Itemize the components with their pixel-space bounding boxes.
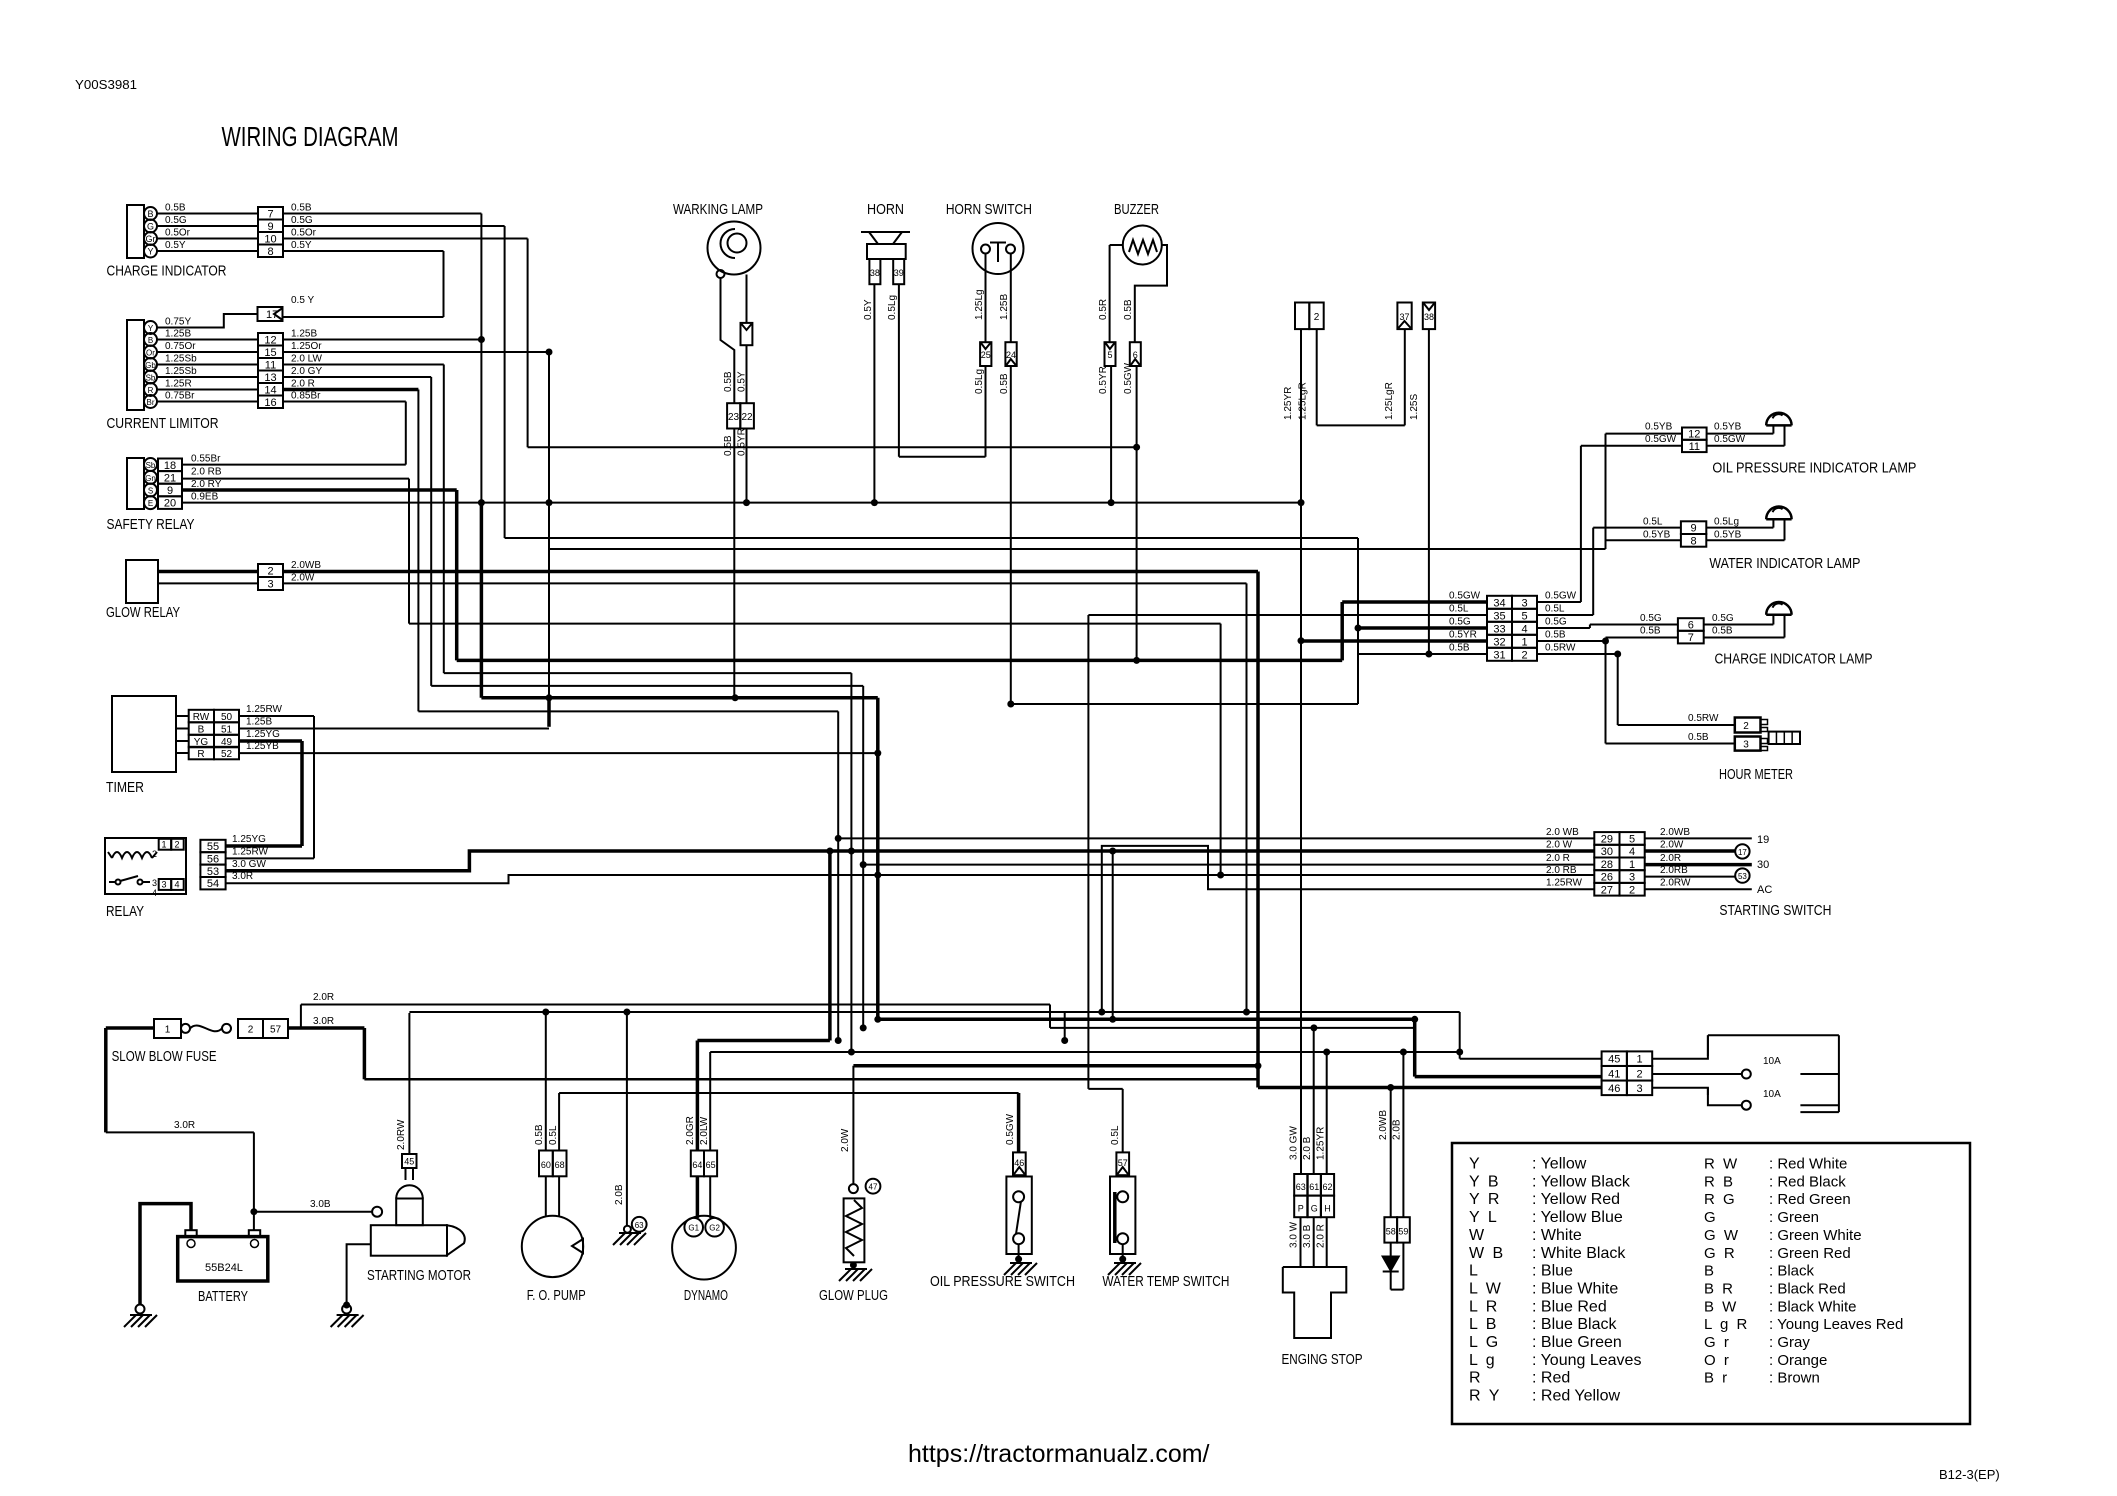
svg-text:SLOW BLOW FUSE: SLOW BLOW FUSE xyxy=(112,1048,217,1065)
svg-text:3: 3 xyxy=(1521,597,1527,609)
svg-text:65: 65 xyxy=(706,1160,716,1170)
svg-text:3.0B: 3.0B xyxy=(310,1199,331,1210)
svg-text:2.0R: 2.0R xyxy=(1660,853,1681,864)
svg-text:1.25RW: 1.25RW xyxy=(232,846,269,857)
svg-text:1: 1 xyxy=(1629,859,1635,871)
svg-text:38: 38 xyxy=(1424,312,1434,322)
svg-text:R B: R B xyxy=(1704,1173,1735,1190)
svg-text:: Black: : Black xyxy=(1769,1263,1815,1280)
svg-text:17: 17 xyxy=(1738,848,1747,857)
svg-text:HOUR METER: HOUR METER xyxy=(1719,766,1793,783)
svg-text:34: 34 xyxy=(1493,597,1505,609)
svg-text:: Red Yellow: : Red Yellow xyxy=(1532,1388,1621,1405)
svg-text:Y: Y xyxy=(1469,1156,1482,1173)
svg-text:2.0 B: 2.0 B xyxy=(1302,1136,1313,1160)
svg-text:3: 3 xyxy=(267,579,273,591)
svg-text:2.0 R: 2.0 R xyxy=(1316,1224,1327,1248)
svg-text:2.0 W: 2.0 W xyxy=(1546,840,1573,851)
svg-text:0.5G: 0.5G xyxy=(1712,613,1734,624)
svg-text:WIRING DIAGRAM: WIRING DIAGRAM xyxy=(222,121,399,152)
svg-text:L g: L g xyxy=(1469,1352,1497,1369)
svg-text:: Young Leaves Red: : Young Leaves Red xyxy=(1769,1316,1903,1333)
svg-text:R Y: R Y xyxy=(1469,1388,1501,1405)
svg-text:3.0R: 3.0R xyxy=(232,871,253,882)
svg-text:63: 63 xyxy=(635,1221,644,1230)
svg-text:0.5Y: 0.5Y xyxy=(737,371,748,392)
svg-text:L: L xyxy=(1469,1263,1480,1280)
svg-text:7: 7 xyxy=(1688,632,1694,644)
svg-text:68: 68 xyxy=(555,1160,565,1170)
svg-text:: White Black: : White Black xyxy=(1532,1245,1626,1262)
svg-text:: Brown: : Brown xyxy=(1769,1370,1820,1387)
svg-text:G W: G W xyxy=(1704,1227,1740,1244)
svg-text:0.5GW: 0.5GW xyxy=(1123,362,1134,394)
svg-text:AC: AC xyxy=(1757,884,1772,896)
svg-text:0.5Lg: 0.5Lg xyxy=(974,369,985,394)
svg-text:31: 31 xyxy=(1493,649,1505,661)
svg-text:2.0 RB: 2.0 RB xyxy=(1546,865,1577,876)
svg-text:27: 27 xyxy=(1601,884,1613,896)
svg-text:Or: Or xyxy=(146,349,155,358)
svg-text:12: 12 xyxy=(264,334,276,346)
svg-text:0.75Y: 0.75Y xyxy=(165,317,191,328)
svg-text:0.5Or: 0.5Or xyxy=(165,228,191,239)
svg-text:10A: 10A xyxy=(1763,1089,1781,1100)
svg-text:G R: G R xyxy=(1704,1245,1737,1262)
svg-text:0.5B: 0.5B xyxy=(165,203,186,214)
svg-text:0.5B: 0.5B xyxy=(723,371,734,392)
svg-text:0.5B: 0.5B xyxy=(723,435,734,456)
svg-text:R W: R W xyxy=(1704,1156,1739,1173)
svg-text:2: 2 xyxy=(1743,721,1749,732)
svg-text:2: 2 xyxy=(267,566,273,578)
svg-text:53: 53 xyxy=(207,866,219,878)
svg-text:3: 3 xyxy=(1636,1083,1642,1095)
svg-text:5: 5 xyxy=(1107,350,1112,360)
svg-text:0.5YB: 0.5YB xyxy=(1714,529,1742,540)
svg-text:: Red Green: : Red Green xyxy=(1769,1191,1851,1208)
svg-text:0.5B: 0.5B xyxy=(1545,630,1566,641)
svg-text:1: 1 xyxy=(1521,636,1527,648)
svg-text:: Young Leaves: : Young Leaves xyxy=(1532,1352,1641,1369)
svg-text:BUZZER: BUZZER xyxy=(1114,201,1159,218)
svg-text:E: E xyxy=(148,499,153,508)
svg-text:STARTING MOTOR: STARTING MOTOR xyxy=(367,1267,471,1284)
svg-text:W B: W B xyxy=(1469,1245,1505,1262)
svg-text:2.0R: 2.0R xyxy=(313,992,334,1003)
svg-text:1.25LgR: 1.25LgR xyxy=(1384,382,1395,420)
svg-text:: Blue Red: : Blue Red xyxy=(1532,1298,1607,1315)
svg-text:5: 5 xyxy=(1521,610,1527,622)
svg-text:3.0 W: 3.0 W xyxy=(1289,1221,1300,1248)
svg-text:OIL PRESSURE SWITCH: OIL PRESSURE SWITCH xyxy=(930,1273,1075,1290)
svg-text:1.25B: 1.25B xyxy=(165,329,191,340)
svg-text:HORN SWITCH: HORN SWITCH xyxy=(946,201,1032,218)
svg-text:1: 1 xyxy=(1636,1054,1642,1066)
svg-text:B R: B R xyxy=(1704,1280,1735,1297)
svg-text:0.5Lg: 0.5Lg xyxy=(887,295,898,320)
svg-text:0.5B: 0.5B xyxy=(534,1124,545,1145)
svg-text:CURRENT LIMITOR: CURRENT LIMITOR xyxy=(107,415,219,432)
svg-text:B W: B W xyxy=(1704,1298,1738,1315)
svg-text:CHARGE INDICATOR: CHARGE INDICATOR xyxy=(107,263,227,280)
svg-text:0.5YB: 0.5YB xyxy=(1645,422,1673,433)
svg-text:1.25YR: 1.25YR xyxy=(1283,387,1294,420)
svg-text:2.0B: 2.0B xyxy=(614,1184,625,1205)
svg-text:0.85Br: 0.85Br xyxy=(291,391,321,402)
svg-text:3.0 GW: 3.0 GW xyxy=(232,859,266,870)
svg-text:R: R xyxy=(148,386,154,395)
svg-text:1.25B: 1.25B xyxy=(291,329,317,340)
svg-text:TIMER: TIMER xyxy=(106,779,144,796)
svg-text:WARKING LAMP: WARKING LAMP xyxy=(673,201,763,218)
svg-text:1.25R: 1.25R xyxy=(165,379,192,390)
svg-text:4: 4 xyxy=(1521,623,1527,635)
svg-text:0.5GW: 0.5GW xyxy=(1449,591,1481,602)
svg-text:0.75Or: 0.75Or xyxy=(165,341,196,352)
svg-text:Y L: Y L xyxy=(1469,1209,1499,1226)
svg-text:SAFETY RELAY: SAFETY RELAY xyxy=(107,516,195,533)
svg-text:WATER INDICATOR LAMP: WATER INDICATOR LAMP xyxy=(1709,555,1860,572)
svg-text:G: G xyxy=(1311,1204,1318,1214)
svg-text:1: 1 xyxy=(165,1025,171,1036)
svg-text:: Red White: : Red White xyxy=(1769,1156,1847,1173)
svg-text:4: 4 xyxy=(174,880,179,890)
svg-text:1.25LgR: 1.25LgR xyxy=(1298,382,1309,420)
svg-text:0.5YB: 0.5YB xyxy=(1643,529,1671,540)
svg-text:8: 8 xyxy=(1691,535,1697,547)
svg-text:0.5GW: 0.5GW xyxy=(1005,1113,1016,1145)
svg-text:3.0R: 3.0R xyxy=(174,1120,195,1131)
svg-text:: Red: : Red xyxy=(1532,1370,1570,1387)
svg-text:B12-3(EP): B12-3(EP) xyxy=(1939,1467,2000,1482)
svg-text:1.25YG: 1.25YG xyxy=(232,834,266,845)
svg-text:30: 30 xyxy=(1757,859,1769,871)
svg-text:Y: Y xyxy=(148,324,154,333)
svg-text:0.5G: 0.5G xyxy=(1545,617,1567,628)
svg-text:: Green: : Green xyxy=(1769,1209,1819,1226)
svg-text:0.5B: 0.5B xyxy=(1640,626,1661,637)
svg-text:0.5L: 0.5L xyxy=(1643,517,1663,528)
svg-text:62: 62 xyxy=(1322,1182,1332,1192)
svg-text:2: 2 xyxy=(152,849,157,859)
svg-text:0.5GW: 0.5GW xyxy=(1545,591,1577,602)
svg-text:0.5B: 0.5B xyxy=(291,203,312,214)
svg-text:41: 41 xyxy=(1608,1068,1620,1080)
svg-text:Sb: Sb xyxy=(146,461,156,470)
svg-text:28: 28 xyxy=(1601,859,1613,871)
svg-text:2.0RB: 2.0RB xyxy=(1660,865,1688,876)
svg-text:Gn: Gn xyxy=(145,474,156,483)
svg-text:: Yellow Black: : Yellow Black xyxy=(1532,1173,1631,1190)
svg-text:H: H xyxy=(1324,1204,1331,1214)
svg-text:10A: 10A xyxy=(1763,1056,1781,1067)
svg-text:G1: G1 xyxy=(688,1224,699,1233)
svg-text:2.0 GY: 2.0 GY xyxy=(291,366,322,377)
svg-text:Y00S3981: Y00S3981 xyxy=(75,77,137,92)
svg-text:3: 3 xyxy=(1743,740,1749,751)
svg-text:0.9EB: 0.9EB xyxy=(191,492,219,503)
svg-text:2.0W: 2.0W xyxy=(1660,840,1684,851)
svg-text:2.0 RB: 2.0 RB xyxy=(191,466,222,477)
svg-text:30: 30 xyxy=(1601,846,1613,858)
svg-text:: Blue: : Blue xyxy=(1532,1263,1573,1280)
svg-text:14: 14 xyxy=(264,384,276,396)
svg-text:: Gray: : Gray xyxy=(1769,1334,1810,1351)
svg-text:0.75Br: 0.75Br xyxy=(165,391,195,402)
svg-text:58: 58 xyxy=(1386,1227,1396,1237)
svg-text:2: 2 xyxy=(1314,312,1320,323)
svg-text:3.0 B: 3.0 B xyxy=(1302,1224,1313,1248)
svg-text:13: 13 xyxy=(264,372,276,384)
svg-text:S: S xyxy=(148,487,153,496)
svg-text:L g R: L g R xyxy=(1704,1316,1749,1333)
svg-text:0.5B: 0.5B xyxy=(1712,626,1733,637)
svg-text:0.5YB: 0.5YB xyxy=(1714,422,1742,433)
svg-text:55: 55 xyxy=(207,841,219,853)
svg-text:0.5Y: 0.5Y xyxy=(863,299,874,320)
svg-text:1.25YR: 1.25YR xyxy=(1316,1127,1327,1160)
svg-text:6: 6 xyxy=(1688,620,1694,632)
svg-text:3: 3 xyxy=(161,880,166,890)
svg-text:0.5G: 0.5G xyxy=(1640,613,1662,624)
svg-text:0.5B: 0.5B xyxy=(999,373,1010,394)
svg-text:38: 38 xyxy=(870,268,880,278)
svg-text:0.5L: 0.5L xyxy=(1449,604,1469,615)
svg-text:0.5Lg: 0.5Lg xyxy=(1714,517,1739,528)
svg-text:L B: L B xyxy=(1469,1316,1498,1333)
svg-text:: Blue Green: : Blue Green xyxy=(1532,1334,1622,1351)
svg-text:3: 3 xyxy=(152,878,157,888)
svg-text:1.25YG: 1.25YG xyxy=(246,729,280,740)
svg-text:CHARGE INDICATOR LAMP: CHARGE INDICATOR LAMP xyxy=(1715,650,1873,667)
svg-text:2.0WB: 2.0WB xyxy=(291,560,321,571)
svg-text:2.0 LW: 2.0 LW xyxy=(291,354,322,365)
svg-text:B r: B r xyxy=(1704,1370,1729,1387)
svg-text:53: 53 xyxy=(1738,872,1747,881)
svg-text:11: 11 xyxy=(1689,441,1700,453)
svg-text:2: 2 xyxy=(1629,884,1635,896)
svg-text:1.25B: 1.25B xyxy=(246,717,272,728)
svg-text:25: 25 xyxy=(981,350,991,360)
svg-text:9: 9 xyxy=(267,221,273,233)
svg-text:L R: L R xyxy=(1469,1298,1499,1315)
svg-text:26: 26 xyxy=(1601,872,1613,884)
svg-text:0.5G: 0.5G xyxy=(291,215,313,226)
svg-text:55B24L: 55B24L xyxy=(205,1262,243,1274)
svg-text:Y: Y xyxy=(147,247,153,257)
svg-text:47: 47 xyxy=(869,1183,878,1192)
svg-text:8: 8 xyxy=(267,246,273,258)
svg-text:0.5Or: 0.5Or xyxy=(291,228,317,239)
svg-text:0.5YR: 0.5YR xyxy=(1449,630,1477,641)
svg-text:2.0 WB: 2.0 WB xyxy=(1546,827,1579,838)
svg-text:: Orange: : Orange xyxy=(1769,1352,1827,1369)
svg-text:20: 20 xyxy=(164,498,176,510)
svg-text:STARTING SWITCH: STARTING SWITCH xyxy=(1719,902,1831,919)
svg-text:R: R xyxy=(197,749,204,760)
svg-text:P: P xyxy=(1298,1204,1304,1214)
svg-text:Y B: Y B xyxy=(1469,1173,1501,1190)
svg-text:16: 16 xyxy=(264,397,276,409)
svg-text:3.0R: 3.0R xyxy=(313,1016,334,1027)
svg-text:HORN: HORN xyxy=(867,201,904,218)
svg-text:2: 2 xyxy=(1636,1068,1642,1080)
svg-text:0.5L: 0.5L xyxy=(1110,1125,1121,1145)
svg-text:0.5B: 0.5B xyxy=(1449,643,1470,654)
svg-text:R: R xyxy=(1469,1370,1483,1387)
svg-text:1.25Or: 1.25Or xyxy=(291,341,322,352)
svg-text:: Green White: : Green White xyxy=(1769,1227,1862,1244)
svg-text:: Green Red: : Green Red xyxy=(1769,1245,1851,1262)
svg-text:: Red Black: : Red Black xyxy=(1769,1173,1846,1190)
svg-text:3.0 GW: 3.0 GW xyxy=(1289,1126,1300,1160)
svg-text:RELAY: RELAY xyxy=(106,903,144,920)
svg-text:: Blue White: : Blue White xyxy=(1532,1280,1618,1297)
svg-text:61: 61 xyxy=(1309,1182,1319,1192)
svg-text:0.5B: 0.5B xyxy=(1688,732,1709,743)
svg-text:L G: L G xyxy=(1469,1334,1500,1351)
svg-text:39: 39 xyxy=(894,268,904,278)
svg-text:2.0RW: 2.0RW xyxy=(396,1119,407,1150)
svg-text:4: 4 xyxy=(1629,846,1635,858)
svg-text:32: 32 xyxy=(1493,636,1505,648)
svg-text:2: 2 xyxy=(174,840,179,850)
svg-text:R G: R G xyxy=(1704,1191,1737,1208)
svg-text:Sb: Sb xyxy=(146,374,156,383)
svg-text:46: 46 xyxy=(1608,1083,1620,1095)
svg-text:Y R: Y R xyxy=(1469,1191,1501,1208)
svg-text:4: 4 xyxy=(152,888,157,898)
svg-text:: Yellow Red: : Yellow Red xyxy=(1532,1191,1620,1208)
svg-text:60: 60 xyxy=(541,1160,551,1170)
svg-text:GLOW PLUG: GLOW PLUG xyxy=(819,1287,888,1304)
svg-text:2.0GR: 2.0GR xyxy=(685,1116,696,1145)
svg-text:0.5L: 0.5L xyxy=(548,1125,559,1145)
svg-text:Gr: Gr xyxy=(146,234,156,244)
svg-text:OIL PRESSURE INDICATOR LAMP: OIL PRESSURE INDICATOR LAMP xyxy=(1712,460,1916,477)
svg-text:DYNAMO: DYNAMO xyxy=(684,1287,728,1304)
svg-text:WATER TEMP SWITCH: WATER TEMP SWITCH xyxy=(1102,1273,1229,1290)
svg-text:2: 2 xyxy=(1521,649,1527,661)
svg-text:G2: G2 xyxy=(709,1224,720,1233)
svg-text:L W: L W xyxy=(1469,1280,1503,1297)
svg-text:Gb: Gb xyxy=(145,361,156,370)
svg-text:19: 19 xyxy=(1757,834,1769,846)
svg-text:18: 18 xyxy=(164,460,176,472)
svg-text:: Blue Black: : Blue Black xyxy=(1532,1316,1617,1333)
svg-text:0.5R: 0.5R xyxy=(1098,299,1109,320)
svg-text:GLOW RELAY: GLOW RELAY xyxy=(106,604,180,621)
svg-text:2: 2 xyxy=(248,1025,254,1036)
svg-text:2.0B: 2.0B xyxy=(1392,1119,1403,1140)
svg-text:11: 11 xyxy=(265,359,276,371)
svg-text:3: 3 xyxy=(1629,872,1635,884)
svg-text:: Black White: : Black White xyxy=(1769,1298,1857,1315)
svg-text:Br: Br xyxy=(147,398,155,407)
svg-text:10: 10 xyxy=(264,233,276,245)
svg-text:F. O. PUMP: F. O. PUMP xyxy=(527,1287,586,1304)
svg-text:O r: O r xyxy=(1704,1352,1731,1369)
svg-text:0.5B: 0.5B xyxy=(1123,299,1134,320)
svg-text:2.0 R: 2.0 R xyxy=(1546,853,1570,864)
svg-text:1.25S: 1.25S xyxy=(1409,394,1420,420)
svg-text:G: G xyxy=(147,222,154,232)
svg-text:1.25RW: 1.25RW xyxy=(246,704,283,715)
svg-text:: White: : White xyxy=(1532,1227,1582,1244)
svg-text:52: 52 xyxy=(221,749,233,760)
svg-text:0.55Br: 0.55Br xyxy=(191,454,221,465)
svg-text:57: 57 xyxy=(270,1025,282,1036)
svg-text:1.25Sb: 1.25Sb xyxy=(165,354,197,365)
svg-text:W: W xyxy=(1469,1227,1486,1244)
svg-text:7: 7 xyxy=(267,208,273,220)
svg-text:9: 9 xyxy=(1691,523,1697,535)
svg-text:2.0LW: 2.0LW xyxy=(699,1116,710,1145)
svg-text:G r: G r xyxy=(1704,1334,1731,1351)
svg-text:B: B xyxy=(1704,1263,1716,1280)
svg-text:1.25Sb: 1.25Sb xyxy=(165,366,197,377)
svg-text:5: 5 xyxy=(1629,833,1635,845)
svg-text:1.25B: 1.25B xyxy=(999,294,1010,320)
svg-text:B: B xyxy=(147,209,153,219)
svg-text:1.25RW: 1.25RW xyxy=(1546,878,1583,889)
svg-text:0.5RW: 0.5RW xyxy=(1545,643,1576,654)
svg-text:33: 33 xyxy=(1493,623,1505,635)
svg-text:21: 21 xyxy=(164,472,176,484)
svg-text:2.0WB: 2.0WB xyxy=(1660,827,1690,838)
svg-text:2.0W: 2.0W xyxy=(291,573,315,584)
svg-text:0.5G: 0.5G xyxy=(1449,617,1471,628)
svg-text:2.0WB: 2.0WB xyxy=(1378,1110,1389,1140)
svg-text:35: 35 xyxy=(1493,610,1505,622)
svg-text:45: 45 xyxy=(404,1157,414,1167)
svg-text:BATTERY: BATTERY xyxy=(198,1288,248,1305)
svg-text:: Yellow Blue: : Yellow Blue xyxy=(1532,1209,1623,1226)
svg-text:1.25Lg: 1.25Lg xyxy=(974,289,985,320)
svg-text:: Black Red: : Black Red xyxy=(1769,1280,1846,1297)
svg-text:0.5YR: 0.5YR xyxy=(1098,366,1109,394)
svg-text:0.5RW: 0.5RW xyxy=(1688,713,1719,724)
svg-text:0.5L: 0.5L xyxy=(1545,604,1565,615)
svg-text:2.0W: 2.0W xyxy=(840,1128,851,1152)
svg-text:2.0RW: 2.0RW xyxy=(1660,878,1691,889)
svg-text:64: 64 xyxy=(692,1160,702,1170)
svg-text:59: 59 xyxy=(1398,1227,1408,1237)
svg-text:B: B xyxy=(148,336,153,345)
svg-text:0.5GW: 0.5GW xyxy=(1714,434,1746,445)
svg-text:https://tractormanualz.com/: https://tractormanualz.com/ xyxy=(908,1440,1210,1468)
svg-text:1: 1 xyxy=(161,840,166,850)
svg-text:0.5 Y: 0.5 Y xyxy=(291,295,314,306)
svg-text:15: 15 xyxy=(264,347,276,359)
svg-text:ENGING STOP: ENGING STOP xyxy=(1282,1351,1363,1368)
svg-text:0.5G: 0.5G xyxy=(165,215,187,226)
svg-text:0.5GW: 0.5GW xyxy=(1645,434,1677,445)
svg-text:45: 45 xyxy=(1608,1054,1620,1066)
svg-text:29: 29 xyxy=(1601,833,1613,845)
svg-text:0.5Y: 0.5Y xyxy=(165,240,186,251)
svg-text:22: 22 xyxy=(741,412,753,423)
svg-text:9: 9 xyxy=(167,485,173,497)
svg-text:0.5Y: 0.5Y xyxy=(291,240,312,251)
svg-text:23: 23 xyxy=(728,412,740,423)
svg-text:G: G xyxy=(1704,1209,1718,1226)
svg-text:: Yellow: : Yellow xyxy=(1532,1156,1587,1173)
svg-text:54: 54 xyxy=(207,878,219,890)
svg-text:63: 63 xyxy=(1296,1182,1306,1192)
